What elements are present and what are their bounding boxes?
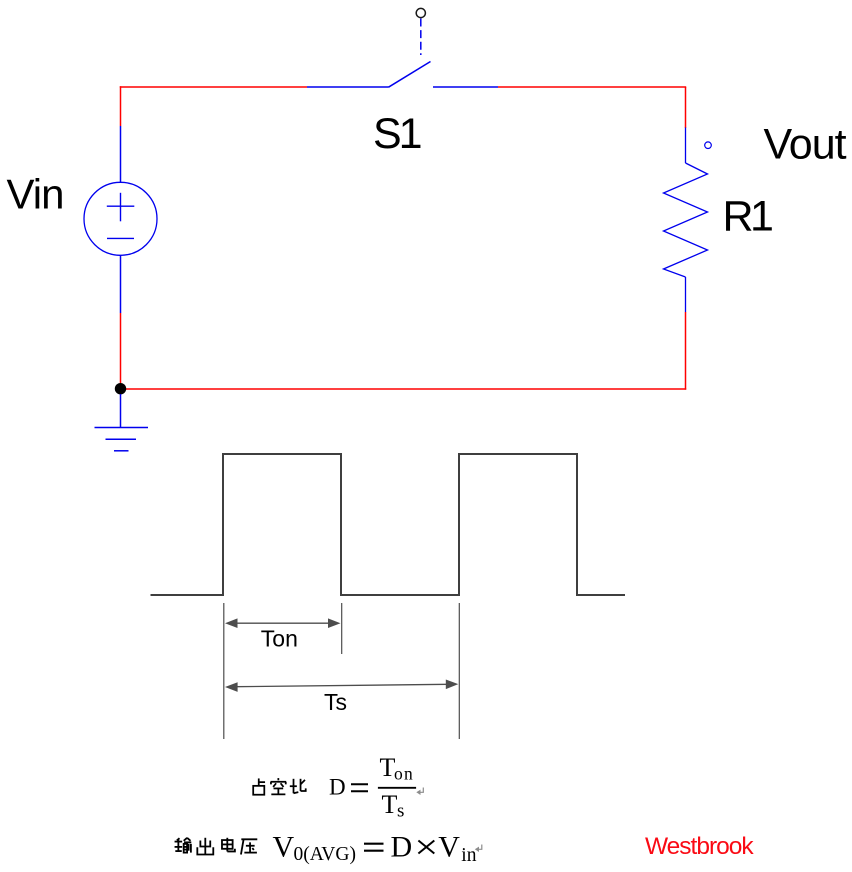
Ton dimension arrow [225, 618, 341, 628]
switch S1 control dashed wire [420, 19, 422, 56]
marker line at first falling edge [341, 603, 343, 654]
wire blue source bottom lead [120, 255, 122, 313]
svg-text:Ts: Ts [324, 689, 347, 715]
wire top blue segment to switch [307, 86, 389, 88]
ground symbol bars [95, 427, 149, 429]
switch S1 blade [389, 62, 431, 88]
svg-text:D: D [329, 774, 346, 799]
wire left red stub below top corner [120, 86, 122, 126]
fraction bar [378, 787, 416, 789]
wire right red stub below resistor [685, 312, 687, 390]
ground lead wire [120, 394, 122, 428]
Chinese label output-voltage 输 [175, 838, 192, 853]
junction dot node [115, 383, 126, 394]
resistor R1 zigzag [664, 163, 708, 277]
svg-text:D: D [391, 831, 413, 864]
wire top-right red segment [498, 86, 686, 88]
marker line at second rising edge [458, 603, 460, 739]
wire blue source top lead [120, 126, 122, 183]
svg-text:Ton: Ton [261, 625, 298, 651]
Chinese label output-voltage 电 [222, 838, 235, 852]
Ts dimension arrow [225, 680, 458, 692]
paragraph return mark line2 [475, 845, 482, 853]
svg-text:V: V [438, 831, 460, 864]
voltage source Vin circle [84, 182, 157, 255]
svg-text:Westbrook: Westbrook [645, 833, 754, 860]
Chinese label output-voltage 出 [197, 838, 213, 855]
paragraph return mark line1 [416, 788, 423, 796]
svg-text:s: s [397, 801, 404, 822]
svg-text:V: V [273, 831, 295, 864]
wire top blue segment right of switch [433, 86, 498, 88]
switch S1 top terminal circle [416, 8, 425, 17]
svg-text:Vin: Vin [7, 171, 64, 218]
svg-text:T: T [382, 790, 398, 819]
svg-text:on: on [394, 764, 414, 784]
wire top-left red segment [120, 86, 307, 88]
wire bottom red [121, 388, 687, 390]
Chinese label output-voltage 压 [241, 839, 257, 854]
marker line at first rising edge [223, 603, 225, 739]
waveform square pulse train [151, 454, 626, 595]
voltage source plus sign [107, 205, 135, 207]
wire left red stub to ground node [120, 313, 122, 389]
svg-text:0(AVG): 0(AVG) [294, 844, 356, 865]
voltage source minus sign [107, 237, 134, 239]
Chinese label duty-cycle 比 [290, 779, 306, 793]
wire blue resistor top lead [685, 128, 687, 164]
wire right red stub above resistor [685, 87, 687, 128]
svg-text:in: in [461, 845, 476, 866]
wire blue resistor bottom lead [685, 277, 687, 312]
svg-text:Vout: Vout [764, 121, 847, 169]
svg-text:R1: R1 [723, 192, 773, 240]
Chinese label duty-cycle 空 [271, 778, 287, 794]
svg-text:S1: S1 [373, 110, 421, 158]
Chinese label duty-cycle 占 [253, 778, 265, 794]
node Vout terminal circle [705, 142, 712, 149]
